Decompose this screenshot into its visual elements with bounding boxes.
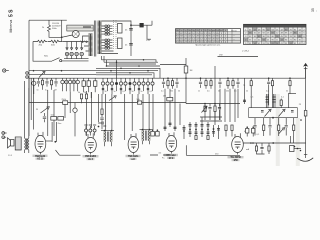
resistor pair right of filter	[225, 125, 233, 137]
resistor	[271, 78, 273, 108]
vertical wires mid-left	[70, 91, 91, 136]
IF transformer IFT2	[140, 129, 154, 144]
shield dashed line	[114, 20, 117, 49]
svg-text:2M: 2M	[163, 96, 166, 98]
resistor	[232, 78, 234, 89]
wire mains to selector	[62, 41, 88, 43]
right bottom component row	[244, 118, 295, 136]
capacitor	[218, 78, 221, 88]
capacitor row item	[45, 78, 49, 91]
svg-text:25k: 25k	[170, 91, 173, 93]
wire bus	[96, 68, 160, 78]
coil boxes	[82, 78, 97, 92]
mains switch lever	[44, 55, 62, 62]
svg-text:25k: 25k	[226, 91, 229, 93]
svg-text:Minerva: Minerva	[9, 20, 13, 33]
resistor	[167, 77, 169, 88]
pickup jack P	[32, 78, 36, 94]
wire right short	[288, 93, 296, 95]
wire to ground	[305, 116, 307, 158]
capacitor	[43, 113, 46, 122]
tube V3	[126, 133, 141, 161]
svg-text:2k: 2k	[42, 27, 44, 29]
resistor row item	[41, 78, 43, 90]
output transformer	[15, 81, 29, 153]
frame top line	[29, 19, 67, 21]
jack circle	[73, 103, 77, 137]
page number 35	[311, 8, 318, 12]
grid resistor w label	[184, 58, 192, 79]
capacitor C2 block	[118, 38, 123, 49]
components above V5	[246, 126, 255, 136]
rectifier / filter	[102, 20, 153, 56]
wire upper seg	[160, 64, 186, 66]
capacitor on drop	[243, 100, 246, 101]
primary taps to selector	[83, 36, 89, 51]
wire bus	[96, 73, 154, 78]
main RF bus	[29, 77, 306, 79]
svg-text:Dier: Dier	[58, 123, 62, 125]
svg-text:TSD 3n/8n: TSD 3n/8n	[128, 156, 139, 158]
small cap cluster	[98, 122, 107, 128]
antenna	[303, 63, 308, 78]
power transformer Tr1	[83, 21, 102, 57]
edge terminal	[3, 69, 9, 72]
input terminals	[26, 72, 29, 79]
tube V4	[164, 132, 178, 160]
svg-text:mW: mW	[219, 55, 223, 57]
resistor R1 (dropper, vertical)	[42, 20, 51, 33]
detector diode arrows	[279, 128, 285, 134]
verticals above box	[266, 94, 288, 108]
svg-text:2n: 2n	[141, 91, 143, 93]
wire vertical to frame	[61, 20, 63, 41]
svg-text:Werte: Werte	[231, 29, 238, 32]
right box frame	[249, 94, 302, 118]
wire bus	[104, 56, 158, 62]
bottom wire right-mid	[186, 145, 240, 155]
svg-text:5 S: 5 S	[8, 9, 14, 17]
svg-text:0,5: 0,5	[207, 91, 210, 93]
AVC bus	[29, 103, 241, 104]
resistor	[227, 77, 229, 88]
svg-text:0,1: 0,1	[161, 91, 164, 93]
svg-text:FM3 9n300: FM3 9n300	[85, 156, 97, 158]
wire lamp to R1	[49, 33, 62, 37]
capacitor	[267, 77, 270, 105]
svg-text:35: 35	[311, 8, 315, 12]
bottom wire left	[56, 150, 81, 155]
bottom wire mid	[150, 154, 170, 156]
voltage selector plugs	[64, 42, 89, 59]
svg-text:0,1: 0,1	[150, 91, 153, 93]
resistor box	[58, 117, 64, 126]
svg-text:50: 50	[132, 91, 134, 93]
svg-text:7A Under: 7A Under	[166, 154, 176, 157]
wires down to AF	[291, 136, 294, 143]
resistor	[205, 78, 207, 89]
note text block	[52, 23, 61, 30]
detector cluster	[200, 103, 222, 122]
component on antenna lead	[300, 111, 307, 121]
resistor inline on AVC bus	[137, 99, 142, 104]
bottom bus right	[243, 142, 305, 144]
wire bus	[102, 56, 157, 62]
dial lamp La	[61, 31, 79, 39]
tone network cluster	[246, 143, 270, 154]
vertical wires left	[29, 78, 54, 136]
svg-text:2kΩ: 2kΩ	[39, 44, 43, 46]
tube V5 mixer	[228, 133, 244, 162]
wire switch to transformer	[62, 60, 89, 62]
terminal circles left edge	[2, 132, 7, 139]
resistor R3 (zigzag on mains wire)	[48, 40, 62, 46]
secondary taps lower	[102, 39, 113, 49]
svg-text:5k: 5k	[286, 91, 288, 93]
svg-text:250k: 250k	[62, 99, 66, 101]
svg-text:1n: 1n	[114, 91, 116, 93]
wire below volume R	[65, 92, 92, 128]
wire bus (long)	[29, 70, 158, 72]
svg-text:AZ 11: AZ 11	[37, 158, 43, 161]
capacitor row item	[54, 78, 58, 91]
resistor label small	[163, 96, 173, 101]
wire label seg	[218, 55, 259, 57]
capacitor	[199, 77, 202, 88]
capacitor	[162, 78, 165, 88]
resistor	[250, 78, 252, 108]
capacitor C1 block	[118, 24, 123, 34]
strong vertical	[116, 60, 118, 78]
choke L1	[130, 23, 152, 27]
resistor vertical	[78, 92, 83, 103]
junction dots on long bus	[33, 70, 35, 72]
secondary taps upper	[102, 20, 132, 22]
svg-text:50: 50	[37, 90, 39, 92]
svg-text:50: 50	[105, 91, 107, 93]
small bars in box	[261, 111, 294, 113]
svg-text:7693 Im42: 7693 Im42	[35, 155, 46, 158]
electrolytic C4	[125, 44, 133, 47]
wire bus	[107, 60, 161, 66]
coupling box	[290, 146, 295, 152]
tube V2	[83, 133, 99, 161]
switch arrow A	[265, 109, 272, 116]
electrolytic C3	[125, 21, 133, 57]
scan smudge bands	[276, 94, 280, 166]
junction dots on buses	[106, 59, 149, 74]
wire bus	[29, 74, 96, 76]
resistor row item	[50, 78, 52, 90]
resistor	[289, 77, 291, 93]
mid right verticals	[165, 66, 238, 131]
svg-text:1k: 1k	[84, 92, 86, 94]
svg-text:1M: 1M	[190, 70, 193, 72]
table caption row	[176, 42, 241, 44]
wire left drop	[33, 42, 52, 62]
vertical wires center	[99, 94, 153, 140]
wire B+ down	[147, 21, 152, 39]
fuse-lamp housing	[67, 25, 93, 31]
svg-text:0,1: 0,1	[123, 91, 126, 93]
frame left line	[28, 20, 30, 136]
svg-text:0,1: 0,1	[45, 90, 48, 92]
resistor box	[51, 115, 57, 120]
svg-text:50Hz: 50Hz	[52, 28, 57, 30]
wire antenna down right edge	[305, 78, 307, 110]
svg-text:W: W	[36, 109, 38, 111]
svg-text:60Ω: 60Ω	[51, 44, 55, 46]
svg-text:Dier: Dier	[51, 115, 55, 117]
core	[94, 21, 96, 57]
resistor vertical	[280, 100, 282, 106]
junction dot	[272, 117, 274, 119]
components above V2	[84, 125, 96, 136]
secondary winding	[99, 21, 101, 55]
resistor R2 (zigzag on mains wire)	[33, 40, 47, 46]
capacitor row item	[37, 78, 41, 91]
capacitor	[175, 78, 178, 88]
capacitor	[236, 78, 239, 88]
band filter cluster	[183, 122, 221, 140]
svg-text:Spannungen gemessen a.U.: Spannungen gemessen a.U.	[195, 45, 221, 47]
primary winding	[90, 34, 92, 57]
svg-text:2k: 2k	[246, 91, 248, 93]
svg-text:—: —	[316, 10, 318, 12]
wire bus extra	[96, 64, 156, 75]
loudspeaker	[8, 138, 15, 148]
wave switch arm	[39, 71, 45, 77]
IF transformer IFT1	[101, 130, 114, 146]
component value labels	[161, 91, 288, 93]
svg-text:mit: mit	[159, 152, 162, 155]
resistor	[171, 78, 173, 89]
ground	[297, 155, 313, 162]
resistor vertical	[84, 92, 88, 99]
osc switch arrow	[109, 96, 116, 101]
svg-text:0,1: 0,1	[266, 91, 269, 93]
resistor on AVC bus	[62, 99, 68, 105]
wave switch contacts	[61, 78, 80, 91]
wire drop far left	[244, 78, 246, 104]
svg-text:50: 50	[178, 91, 180, 93]
resistor	[210, 78, 212, 89]
small series caps on verticals	[164, 123, 177, 128]
tube V1 output	[33, 132, 48, 161]
grid stopper boxes	[151, 129, 159, 136]
volume switch arrow	[36, 107, 49, 113]
svg-text:Netz: Netz	[44, 55, 48, 58]
tube data table (right)	[244, 24, 307, 45]
svg-text:u CW-4: u CW-4	[242, 51, 250, 53]
resistor vertical w cap	[100, 94, 103, 129]
title Minerva 5S vertical	[8, 9, 14, 33]
switch arrow B	[279, 109, 286, 116]
svg-text:1n: 1n	[198, 91, 200, 93]
wires above tube V1	[46, 122, 57, 143]
svg-text:AL 4: AL 4	[88, 158, 93, 161]
svg-text:5k: 5k	[78, 92, 80, 94]
svg-text:Tfm 5M 58: Tfm 5M 58	[230, 157, 241, 159]
